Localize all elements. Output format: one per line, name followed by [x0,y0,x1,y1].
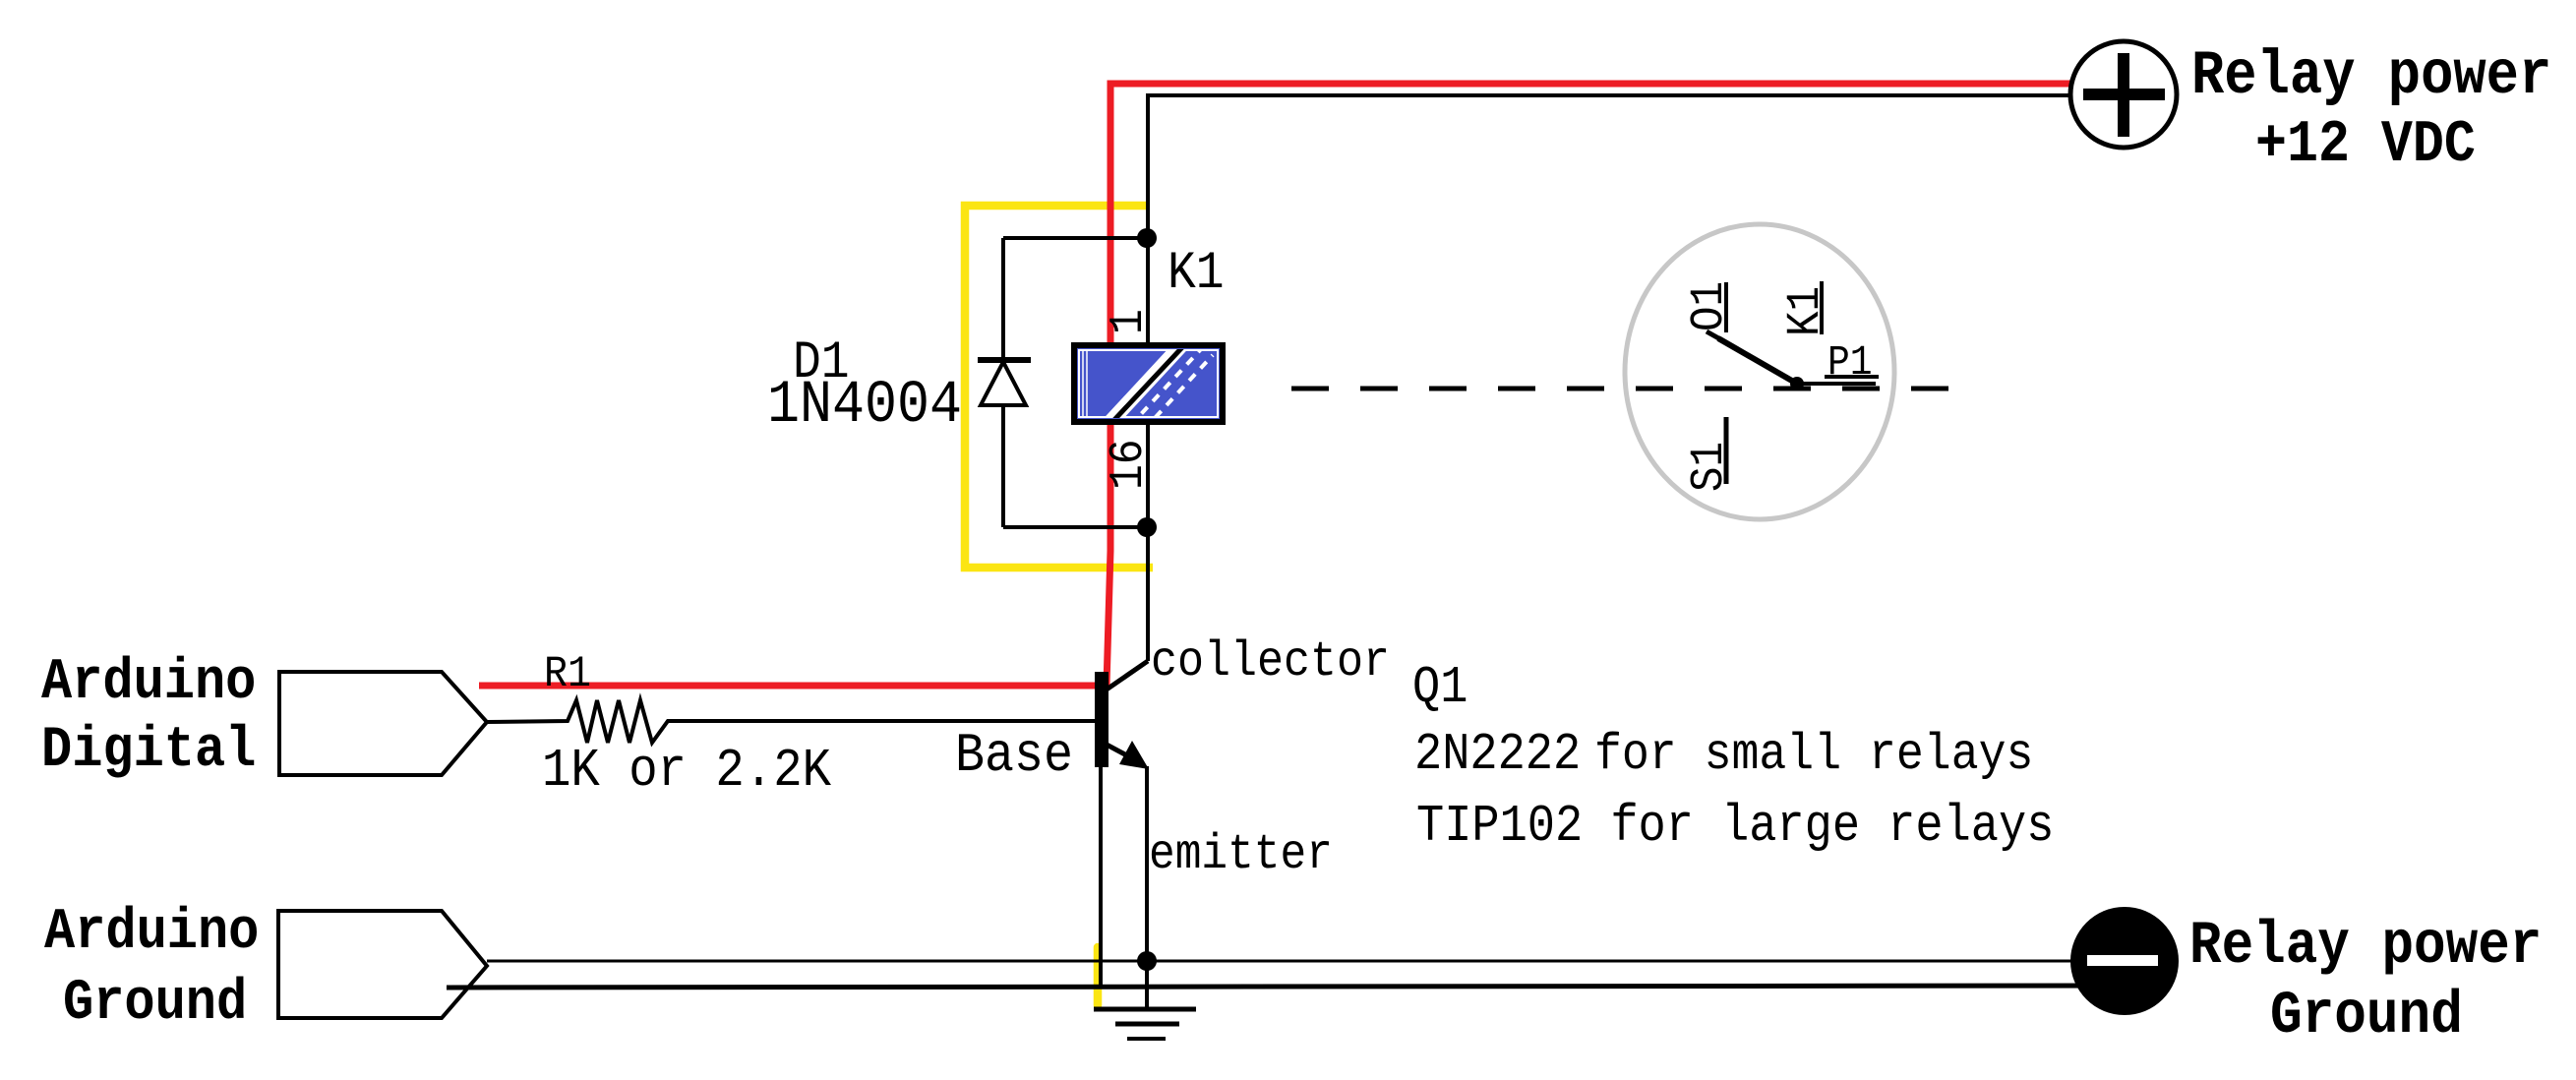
wire diode vertical leads [1001,238,1005,361]
svg-text:S1: S1 [1682,442,1736,492]
svg-text:Arduino: Arduino [44,899,259,965]
dashed mechanical link to switch [1291,387,1952,391]
wire pivot to P1 [1797,382,1876,386]
svg-text:emitter: emitter [1149,828,1333,883]
wire diode top branch [1003,236,1141,240]
svg-text:Ground: Ground [2270,983,2463,1050]
ground symbol [1094,1009,1196,1039]
svg-text:P1: P1 [1827,339,1873,388]
svg-text:R1: R1 [544,649,591,699]
svg-text:K1: K1 [1778,286,1832,336]
diode D1 1N4004 [978,360,1031,405]
connector Arduino Digital [279,672,487,775]
svg-text:1K or 2.2K: 1K or 2.2K [542,741,832,802]
wire thin vertical below base [1099,767,1103,989]
switch contact O1 tick [1707,331,1738,349]
svg-text:1N4004: 1N4004 [767,370,962,440]
svg-text:Relay power: Relay power [2191,41,2551,111]
emitter arrow [1119,741,1149,769]
svg-text:Digital: Digital [41,717,256,783]
switch contact S1 tick [1724,417,1729,484]
svg-text:Base: Base [955,725,1073,787]
node junction dot bottom (pin16 / diode) [1137,517,1157,537]
node junction dot emitter/ground [1137,951,1157,971]
wire ground top [487,960,2123,963]
emitter diagonal [1107,745,1136,760]
relay K1 coil box [1074,343,1223,430]
power terminal +12 VDC [2070,41,2177,148]
svg-text:16: 16 [1102,439,1156,490]
switch detail circle [1625,224,1894,519]
power terminal Relay power Ground (minus) [2070,907,2179,1015]
wire yellow highlight bracket around relay coil [965,206,1153,568]
wire red +12V from supply to relay and transistor collector area [479,84,2070,686]
collector diagonal [1107,661,1148,690]
wire diode bottom branch [1003,525,1141,529]
svg-text:Arduino: Arduino [41,649,256,715]
connector Arduino Ground [278,911,487,1018]
svg-text:+12 VDC: +12 VDC [2255,112,2476,179]
svg-text:Ground: Ground [63,970,247,1036]
wire yellow segment near ground [1094,947,1103,1005]
base bar [1095,672,1108,767]
svg-text:collector: collector [1151,634,1390,690]
transistor Q1 [1095,661,1149,769]
node junction dot top (pin1 / diode / +12) [1137,228,1157,248]
resistor R1 with leads and base wire [487,700,1095,743]
wire relay pin16 vertical down to collector [1146,422,1150,661]
switch arm K1 [1718,338,1797,384]
svg-text:for small relays: for small relays [1594,726,2033,784]
wire emitter vertical [1145,766,1149,1009]
svg-text:1: 1 [1102,309,1156,334]
wire black from +12 terminal down to relay pin 1 [1148,95,2073,238]
svg-text:K1: K1 [1168,245,1225,304]
wire ground bottom [447,986,2127,988]
svg-text:TIP102 for large relays: TIP102 for large relays [1416,797,2054,856]
wire relay pin1 vertical [1146,238,1150,345]
node pivot P1 dot [1790,377,1804,390]
svg-text:Q1: Q1 [1412,658,1468,717]
svg-text:Relay power: Relay power [2189,913,2542,981]
svg-text:2N2222: 2N2222 [1414,725,1581,784]
